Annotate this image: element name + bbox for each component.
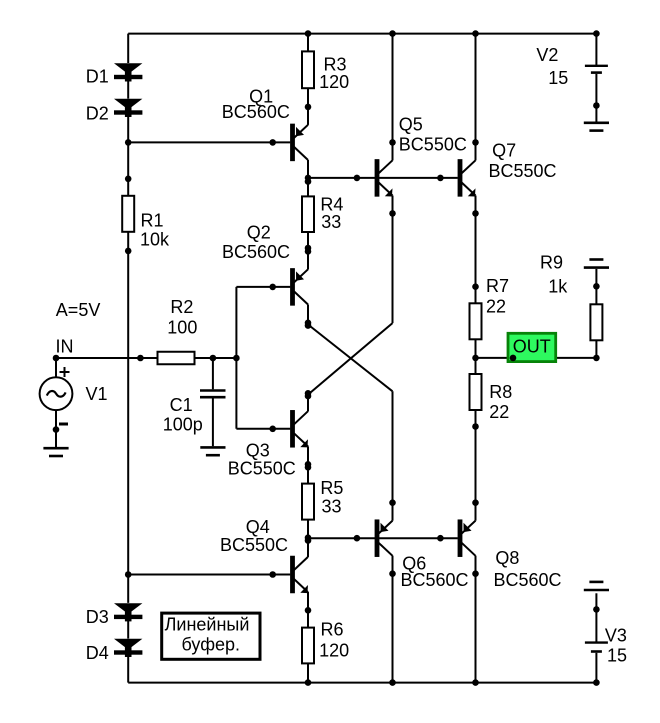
svg-text:BC560C: BC560C [222,242,290,262]
svg-text:Q7: Q7 [492,140,516,160]
svg-text:буфер.: буфер. [182,635,241,655]
svg-text:D4: D4 [86,643,109,663]
svg-text:100: 100 [167,317,197,337]
svg-text:A=5V: A=5V [56,300,101,320]
svg-text:R8: R8 [489,382,512,402]
svg-text:22: 22 [489,402,509,422]
svg-text:33: 33 [321,212,341,232]
svg-text:BC550C: BC550C [489,161,557,181]
svg-text:100p: 100p [163,414,203,434]
svg-text:R7: R7 [486,276,509,296]
svg-text:D3: D3 [86,607,109,627]
svg-text:Q5: Q5 [399,114,423,134]
svg-text:Q3: Q3 [246,440,270,460]
svg-text:R6: R6 [321,619,344,639]
svg-text:D2: D2 [86,103,109,123]
svg-text:Q2: Q2 [247,222,271,242]
svg-text:R2: R2 [170,297,193,317]
svg-text:BC550C: BC550C [220,535,288,555]
svg-text:R9: R9 [540,252,563,272]
svg-text:BC550C: BC550C [399,135,467,155]
svg-text:OUT: OUT [513,337,551,357]
svg-text:V3: V3 [605,625,627,645]
svg-text:Q8: Q8 [495,548,519,568]
svg-text:R5: R5 [320,478,343,498]
svg-text:22: 22 [486,296,506,316]
svg-text:120: 120 [319,640,349,660]
svg-text:Линейный: Линейный [165,614,250,634]
svg-text:15: 15 [607,645,627,665]
svg-text:BC560C: BC560C [222,102,290,122]
svg-text:BC560C: BC560C [401,570,469,590]
svg-text:IN: IN [56,336,74,356]
svg-text:1k: 1k [548,276,568,296]
svg-text:BC550C: BC550C [228,458,296,478]
svg-text:V2: V2 [536,45,558,65]
svg-text:Q4: Q4 [246,517,270,537]
svg-text:33: 33 [322,496,342,516]
svg-text:10k: 10k [140,229,170,249]
svg-text:BC560C: BC560C [494,570,562,590]
svg-text:15: 15 [548,68,568,88]
svg-text:120: 120 [319,72,349,92]
svg-text:R1: R1 [141,210,164,230]
svg-text:D1: D1 [86,66,109,86]
svg-text:V1: V1 [86,384,108,404]
svg-text:C1: C1 [170,395,193,415]
